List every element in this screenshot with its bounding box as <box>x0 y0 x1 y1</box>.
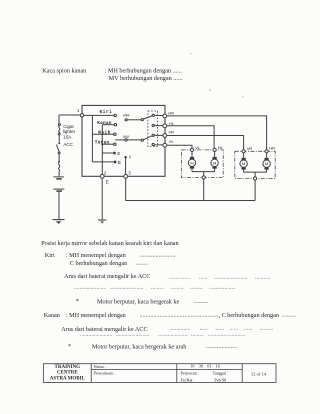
pole MV <box>115 134 153 141</box>
svg-text:Naik: Naik <box>98 130 111 135</box>
wire right box to return <box>254 180 256 200</box>
wire link to battery <box>58 171 60 176</box>
svg-text:12 of 14: 12 of 14 <box>251 372 267 377</box>
svg-text:*: * <box>76 298 79 305</box>
wire Kiri row <box>84 114 117 116</box>
terminal HL left box <box>213 145 224 152</box>
svg-text:.........: ......... <box>282 312 296 319</box>
svg-text:........................: ........................ <box>214 275 248 281</box>
svg-text:...............: ............... <box>169 275 191 281</box>
svg-text:lighter: lighter <box>63 129 76 134</box>
terminal VR <box>163 130 174 138</box>
svg-text:.........: ......... <box>171 284 184 290</box>
svg-text:1: 1 <box>77 108 80 113</box>
node label Kanan <box>97 121 112 126</box>
ground terminal 2 <box>98 220 106 224</box>
motor M vertical-right <box>240 153 247 172</box>
wire battery feed to node 1 <box>59 114 80 116</box>
svg-text:CENTRE: CENTRE <box>57 371 79 376</box>
svg-text:30: 30 <box>199 363 203 368</box>
wire E row <box>102 151 120 156</box>
wire HR to right motor box <box>167 116 267 150</box>
selector dashed box <box>148 111 158 147</box>
terminal 2 <box>100 171 107 179</box>
svg-text:ACC: ACC <box>63 142 73 147</box>
svg-text:...........................: ........................... <box>208 331 246 337</box>
wire VL to left motor box <box>167 145 192 148</box>
svg-text:.........: ......... <box>190 284 203 290</box>
svg-text:Kaca spion kanan: Kaca spion kanan <box>42 67 86 74</box>
svg-text:M: M <box>213 160 216 165</box>
svg-text:......: ...... <box>199 275 208 281</box>
node label Turun <box>95 140 110 145</box>
left mirror motor box <box>182 150 224 178</box>
svg-text:Perusahaan :: Perusahaan : <box>94 371 115 376</box>
fusible link squiggle <box>58 162 59 171</box>
wire terminal 2 to ground <box>101 178 103 219</box>
svg-text:c: c <box>129 154 132 159</box>
svg-text:M: M <box>265 161 268 166</box>
svg-text:..............................: ........................................… <box>140 312 219 319</box>
wire ACC to link <box>58 154 60 162</box>
svg-text:VR: VR <box>169 130 175 135</box>
wire Naik row <box>92 133 116 135</box>
svg-text:........................: ........................ <box>116 331 150 337</box>
terminal VL <box>163 139 175 147</box>
svg-text:Nama :: Nama : <box>94 364 106 369</box>
svg-text:M: M <box>190 160 193 165</box>
wire bus A <box>92 115 113 161</box>
wire fuse to ACC switch <box>58 135 60 142</box>
svg-text:Fir/Hat: Fir/Hat <box>181 377 194 382</box>
svg-text:.........: ......... <box>194 298 208 305</box>
svg-text:E: E <box>117 151 120 156</box>
wire terminal 3 to return bus <box>126 178 255 200</box>
svg-text:M: M <box>242 161 245 166</box>
svg-text:HL: HL <box>218 145 224 150</box>
svg-text:MH: MH <box>123 113 129 118</box>
svg-text:..........: .......... <box>259 326 274 332</box>
svg-text:Motor berputar, kaca bergerak: Motor berputar, kaca bergerak ke arah <box>92 343 187 350</box>
svg-text:Turun: Turun <box>95 140 110 145</box>
pole MH <box>123 113 153 121</box>
svg-text:Posisi kerja mirror sebelah ka: Posisi kerja mirror sebelah kanan kearah… <box>41 240 178 247</box>
svg-text:Kiri: Kiri <box>100 110 113 115</box>
svg-text:Cigar: Cigar <box>63 124 74 129</box>
svg-text:...........: ........... <box>255 275 271 281</box>
svg-text:.......................: ....................... <box>74 284 107 290</box>
svg-text:.......................: ....................... <box>140 252 176 259</box>
motor M vertical-left <box>188 152 195 172</box>
svg-text:........................: ........................ <box>110 284 144 290</box>
svg-text:B: B <box>118 160 121 165</box>
node label text: Kaca spion kanan heading <box>42 67 183 82</box>
svg-text:: MH menempel dengan: : MH menempel dengan <box>66 252 126 259</box>
svg-text:Kiri: Kiri <box>45 252 55 259</box>
node label Naik <box>98 130 111 135</box>
battery <box>53 177 64 191</box>
svg-text:: MH menempel dengan: : MH menempel dengan <box>66 312 126 319</box>
terminal VL left box <box>190 145 200 152</box>
motor M horizontal-left <box>211 152 218 172</box>
switch ACC <box>56 142 73 154</box>
ground battery <box>53 220 65 224</box>
svg-text:*: * <box>68 343 71 350</box>
svg-text:ASTRA MOBIL: ASTRA MOBIL <box>50 376 86 381</box>
wire battery to ground <box>58 192 60 219</box>
svg-text:.......................: ....................... <box>80 331 113 337</box>
svg-text:2: 2 <box>104 171 107 176</box>
svg-text:E: E <box>106 179 109 184</box>
selector contact VR <box>152 134 163 136</box>
svg-text:.....................: ..................... <box>158 331 188 337</box>
svg-text:, C berhubungan dengan: , C berhubungan dengan <box>219 312 280 319</box>
motor M horizontal-right <box>263 153 270 172</box>
svg-text:TRAINING: TRAINING <box>55 365 81 370</box>
wire Kanan row <box>102 124 116 126</box>
svg-text:C berhubungan dengan: C berhubungan dengan <box>70 260 127 267</box>
svg-text:HL: HL <box>169 121 175 126</box>
svg-text:........: ........ <box>136 259 149 266</box>
fuse cigar lighter 15A <box>58 124 75 140</box>
contact c <box>124 154 132 159</box>
selector contact HL <box>152 124 163 126</box>
wire right box common <box>244 172 267 177</box>
svg-text:....................: .................... <box>206 343 237 350</box>
contact B <box>114 160 121 165</box>
svg-text:Arus dari baterai mengalir ke: Arus dari baterai mengalir ke ACC <box>64 273 150 280</box>
wire left box to return <box>203 179 205 200</box>
wire VR to right motor box <box>167 136 244 150</box>
svg-text:Tanggal :: Tanggal : <box>213 371 229 376</box>
svg-text:Kanan: Kanan <box>97 121 112 126</box>
svg-text:Motor berputar, kaca bergerak: Motor berputar, kaca bergerak ke <box>97 298 180 305</box>
svg-text:Peb’98: Peb’98 <box>214 377 226 382</box>
svg-text:01: 01 <box>207 363 211 368</box>
speckle <box>209 89 211 91</box>
terminal common left box <box>202 176 205 179</box>
svg-text:Kanan: Kanan <box>44 312 60 319</box>
svg-text:: MH berhubungan dengan ......: : MH berhubungan dengan ...... <box>105 67 183 74</box>
svg-text:15A: 15A <box>63 135 71 140</box>
svg-text:HR: HR <box>168 110 174 115</box>
mirror switch box U1 <box>82 105 165 176</box>
right mirror motor box <box>235 151 275 178</box>
svg-text:...................: ................... <box>209 284 236 290</box>
selector contact HR <box>152 114 163 116</box>
wire HL to left motor box <box>167 126 214 148</box>
terminal 3 <box>124 171 132 179</box>
node label E below terminal 2 <box>106 179 109 184</box>
terminal HR right box <box>265 146 275 153</box>
svg-text:.........: ......... <box>191 331 204 337</box>
node label Kiri <box>100 110 113 115</box>
wire left box common <box>192 172 215 176</box>
svg-text:MV berhubungan dengan ......: MV berhubungan dengan ...... <box>109 75 183 82</box>
svg-text:VR: VR <box>247 146 253 151</box>
wire bus B <box>101 125 103 175</box>
svg-text:.........: ......... <box>151 284 164 290</box>
svg-text:10: 10 <box>190 363 194 368</box>
terminal HL <box>163 121 175 128</box>
terminal common right box <box>254 177 257 180</box>
wire c to terminal 3 <box>125 158 127 175</box>
svg-text:Penyusun :: Penyusun : <box>181 371 200 376</box>
wire top of fuse <box>58 115 60 124</box>
selector contact VL <box>152 143 163 145</box>
svg-text:VL: VL <box>169 139 175 144</box>
node 1 <box>77 108 84 117</box>
terminal VR right box <box>242 146 252 153</box>
svg-text:HR: HR <box>269 146 275 151</box>
terminal HR <box>163 110 174 118</box>
wire Turun row <box>101 143 116 145</box>
speckle <box>190 53 191 54</box>
svg-text:3: 3 <box>128 171 131 176</box>
svg-text:10: 10 <box>216 363 220 368</box>
speckle <box>242 96 243 97</box>
svg-text:VL: VL <box>195 145 201 150</box>
